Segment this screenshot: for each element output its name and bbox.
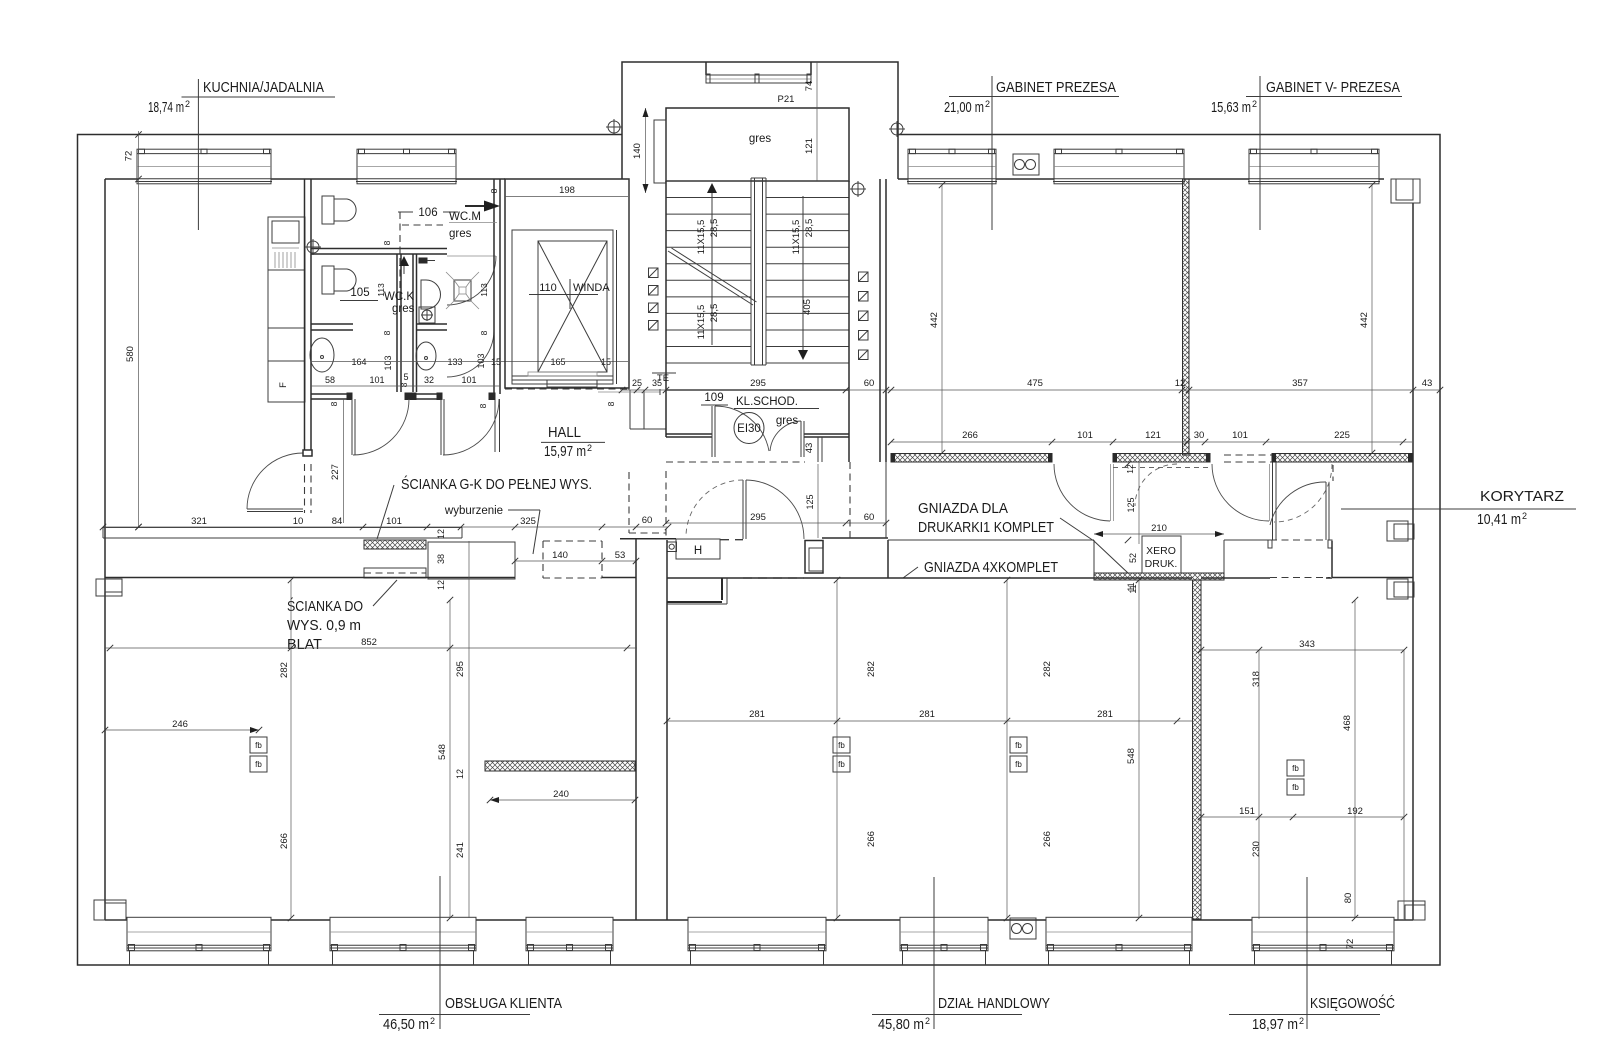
wc door1 arc <box>353 399 409 455</box>
svg-text:266: 266 <box>866 831 877 847</box>
right inner wall <box>1412 203 1414 920</box>
svg-text:140: 140 <box>552 550 568 561</box>
dim 240 <box>490 789 635 803</box>
EI30 door left leaf <box>711 406 713 457</box>
korytarz door leaf <box>1325 482 1327 540</box>
svg-text:106: 106 <box>418 207 437 219</box>
dim 852 <box>105 637 637 648</box>
svg-text:KL.SCHOD.: KL.SCHOD. <box>736 396 798 408</box>
svg-text:gres: gres <box>776 415 799 427</box>
stair right wall <box>848 181 850 462</box>
dim row y390 right <box>886 378 1440 390</box>
dashed opening korytarz top <box>1224 454 1272 456</box>
window W1 kuchnia <box>136 149 272 184</box>
wc m upper door leaf <box>447 255 496 257</box>
korytarz wall v <box>1331 541 1333 577</box>
dim 125 door <box>1126 462 1139 544</box>
svg-text:101: 101 <box>386 516 402 527</box>
svg-text:fb: fb <box>838 741 845 750</box>
korytarz door dashed arc <box>1274 464 1332 522</box>
xero niche walls <box>888 540 1268 578</box>
svg-text:282: 282 <box>1042 661 1053 677</box>
svg-text:343: 343 <box>1299 639 1315 650</box>
svg-text:295: 295 <box>750 378 766 389</box>
pilaster ksiegowosc br <box>1398 901 1425 920</box>
window B6 dzial handlowy <box>1046 917 1192 965</box>
svg-text:gres: gres <box>449 228 472 240</box>
svg-text:101: 101 <box>1077 430 1093 441</box>
window W2 kuchnia <box>356 149 457 184</box>
dim 548 a <box>437 600 450 918</box>
svg-text:15: 15 <box>491 357 501 367</box>
kitchen south wall <box>103 528 462 539</box>
xero box <box>1142 536 1181 573</box>
svg-text:gres: gres <box>749 133 772 145</box>
svg-text:2: 2 <box>587 443 592 453</box>
svg-text:15,63 m: 15,63 m <box>1211 99 1251 116</box>
dim 198 <box>505 185 628 197</box>
stair bottom wall <box>666 389 849 391</box>
svg-text:133: 133 <box>447 357 462 367</box>
hatched wall gabinet south A <box>891 454 1052 463</box>
svg-text:46,50 m: 46,50 m <box>383 1016 429 1033</box>
svg-text:11X15,5: 11X15,5 <box>696 305 707 340</box>
svg-text:227: 227 <box>330 464 341 480</box>
svg-text:60: 60 <box>864 378 875 389</box>
gabinet dim 442 b <box>1359 185 1372 453</box>
svg-text:103: 103 <box>476 353 486 368</box>
svg-text:281: 281 <box>749 709 765 720</box>
label EI30 <box>734 413 764 444</box>
svg-text:28,5: 28,5 <box>804 219 815 238</box>
small up arrow <box>399 256 409 274</box>
tower window <box>706 62 811 83</box>
svg-text:25: 25 <box>632 378 642 388</box>
svg-text:282: 282 <box>279 662 290 678</box>
ext line ksieg right <box>1403 650 1405 919</box>
svg-text:241: 241 <box>455 842 466 858</box>
stair down arrow <box>798 196 808 360</box>
svg-text:60: 60 <box>864 512 875 523</box>
corridor south wall left <box>105 577 515 579</box>
door handle symbol <box>419 258 427 263</box>
svg-text:225: 225 <box>1334 430 1350 441</box>
svg-text:12: 12 <box>455 769 465 779</box>
window B2 obsluga <box>330 917 476 965</box>
hall east dashed <box>665 471 667 538</box>
svg-text:28,5: 28,5 <box>709 219 720 238</box>
hatched wall gabinet south C <box>1272 454 1412 463</box>
marker cross stairs right <box>852 183 864 195</box>
corridor pier <box>805 541 823 574</box>
gabinet prezesa wall left <box>879 179 881 462</box>
scianka gk label <box>377 475 592 539</box>
stair break line <box>668 251 753 305</box>
svg-text:475: 475 <box>1027 378 1043 389</box>
hatched scianka blat <box>485 761 635 771</box>
svg-text:230: 230 <box>1251 841 1262 857</box>
svg-text:18,97 m: 18,97 m <box>1252 1016 1298 1033</box>
winda divider <box>569 279 571 309</box>
dimension ticks <box>100 131 1443 921</box>
svg-text:580: 580 <box>125 346 136 362</box>
dim 468 <box>1342 600 1355 918</box>
dim 343 <box>1201 639 1404 650</box>
H box small <box>667 542 677 552</box>
dim 74 <box>804 62 817 108</box>
stair landing box <box>666 108 849 181</box>
svg-text:P21: P21 <box>778 94 795 105</box>
label 106 <box>398 207 458 219</box>
dim row y442 <box>891 430 1412 442</box>
korytarz west wall <box>1272 462 1274 540</box>
winda underline <box>529 294 598 296</box>
svg-text:295: 295 <box>750 512 766 523</box>
svg-text:101: 101 <box>461 375 476 385</box>
svg-text:GABINET PREZESA: GABINET PREZESA <box>996 79 1116 96</box>
EI30 door right leaf <box>800 421 802 457</box>
pilaster obsluga tl <box>96 579 122 596</box>
svg-text:2: 2 <box>185 99 190 109</box>
window W5 gabinet v-prezesa <box>1248 149 1380 184</box>
dim row y390 stairs <box>622 378 886 390</box>
radiator symbol bottom <box>1010 918 1036 939</box>
svg-text:103: 103 <box>383 355 393 370</box>
label KL.SCHOD. <box>734 396 819 409</box>
dim 210 <box>1094 523 1224 537</box>
svg-text:GNIAZDA 4XKOMPLET: GNIAZDA 4XKOMPLET <box>924 559 1058 576</box>
dashed stairs south <box>666 461 805 463</box>
dashed corridor right <box>849 462 851 538</box>
dzial niche <box>667 578 727 604</box>
ext line ksieg <box>1258 650 1260 919</box>
fb box ksiegowosc <box>1287 760 1304 795</box>
pilaster obsluga bl <box>94 900 126 920</box>
wc wash basin left <box>310 338 334 372</box>
stair south wall <box>666 434 849 437</box>
svg-text:8: 8 <box>329 401 339 406</box>
svg-text:442: 442 <box>929 312 940 328</box>
radiator symbol top <box>1013 154 1039 175</box>
korytarz label <box>1341 488 1576 528</box>
svg-text:EI30: EI30 <box>737 423 761 435</box>
svg-text:32: 32 <box>424 375 434 385</box>
marker cross wc <box>419 307 435 323</box>
svg-text:WYS. 0,9 m: WYS. 0,9 m <box>287 617 361 634</box>
svg-text:58: 58 <box>325 375 335 385</box>
wc lav wall left <box>311 323 353 325</box>
shower <box>446 272 479 309</box>
kitchen fridge F <box>268 361 305 402</box>
wyburzenie label <box>444 505 540 554</box>
elevator X <box>538 241 607 372</box>
svg-text:wyburzenie: wyburzenie <box>444 505 503 517</box>
gabinet prezesa label <box>949 76 1119 230</box>
dim row y527 <box>103 515 668 527</box>
svg-text:8: 8 <box>479 330 489 335</box>
svg-text:442: 442 <box>1359 312 1370 328</box>
hatched scianka gk <box>364 540 426 549</box>
wc mid wall <box>311 249 447 255</box>
kitchen door arc <box>247 453 303 509</box>
svg-text:WC.K: WC.K <box>384 291 414 303</box>
svg-text:fb: fb <box>838 760 845 769</box>
ext line dzial a <box>836 580 838 918</box>
svg-text:321: 321 <box>191 516 207 527</box>
svg-text:38: 38 <box>436 554 446 564</box>
svg-text:198: 198 <box>559 185 575 196</box>
svg-text:281: 281 <box>919 709 935 720</box>
svg-text:405: 405 <box>802 299 813 315</box>
svg-text:5: 5 <box>403 372 408 382</box>
wc k right wall <box>397 254 401 392</box>
svg-text:125: 125 <box>805 494 815 509</box>
wc m upper door arc <box>447 256 496 305</box>
xero hatch <box>1094 573 1224 580</box>
svg-text:GABINET V- PREZESA: GABINET V- PREZESA <box>1266 79 1400 96</box>
radiator niche 2 <box>1387 579 1414 599</box>
dim 125 line hall <box>817 464 819 538</box>
svg-text:8: 8 <box>478 403 488 408</box>
elevator car <box>538 241 607 372</box>
korytarz dashed stub <box>1332 465 1334 481</box>
gabinet door1 dashed arc <box>1135 464 1177 506</box>
svg-text:DRUKARKI1 KOMPLET: DRUKARKI1 KOMPLET <box>918 519 1054 536</box>
wc east wall <box>494 179 500 452</box>
marker cross gabinet <box>891 123 903 135</box>
svg-text:852: 852 <box>361 637 377 648</box>
wc door2 leaf <box>440 399 442 455</box>
label WCM underline <box>449 222 497 224</box>
gniazda drukarki label <box>918 500 1128 573</box>
dzial leader <box>933 877 935 1029</box>
svg-text:28,5: 28,5 <box>709 304 720 323</box>
corridor wall dashed H <box>720 539 743 541</box>
kuchnia label underline <box>182 96 336 98</box>
svg-text:15: 15 <box>601 357 611 367</box>
svg-text:266: 266 <box>962 430 978 441</box>
dim 151/192 <box>1201 806 1404 817</box>
svg-text:gres: gres <box>392 303 415 315</box>
svg-text:240: 240 <box>553 789 569 800</box>
svg-text:11X15,5: 11X15,5 <box>696 220 707 255</box>
korytarz dashed bottom <box>1270 539 1330 541</box>
gabinet door2 arc <box>1212 464 1269 521</box>
svg-text:151: 151 <box>1239 806 1255 817</box>
svg-text:TE: TE <box>657 373 669 384</box>
svg-text:165: 165 <box>550 357 565 367</box>
top right pilaster <box>1391 179 1420 203</box>
hatched wall between gabinets <box>1183 179 1190 455</box>
stair treads <box>666 181 849 363</box>
hall label <box>541 424 605 460</box>
wall kitchen-wc <box>305 179 312 450</box>
hall double door arc dashed <box>686 480 743 537</box>
window W3 gabinet prezesa <box>907 149 997 184</box>
svg-text:11X15,5: 11X15,5 <box>791 220 802 255</box>
svg-text:XERO: XERO <box>1146 545 1176 557</box>
svg-text:468: 468 <box>1342 715 1353 731</box>
svg-text:8: 8 <box>382 240 392 245</box>
dim 548 b <box>1126 580 1139 918</box>
stair stringer <box>751 178 766 365</box>
dim 121 stairs <box>804 108 817 181</box>
kitchen counter sink unit <box>268 217 305 270</box>
hall double door arc solid <box>746 480 804 539</box>
svg-text:101: 101 <box>369 375 384 385</box>
dim 140 corridor <box>515 550 602 561</box>
kitchen door leaf <box>247 508 303 510</box>
fb box dzial a <box>833 737 850 772</box>
svg-text:548: 548 <box>1126 748 1137 764</box>
toilet WC.M <box>322 196 356 224</box>
svg-text:H: H <box>694 545 702 557</box>
svg-text:164: 164 <box>351 357 366 367</box>
corridor south wall right <box>822 537 888 539</box>
svg-text:fb: fb <box>1292 783 1299 792</box>
svg-text:fb: fb <box>255 741 262 750</box>
svg-text:295: 295 <box>455 661 466 677</box>
dim 246 <box>105 719 259 733</box>
svg-text:WC.M: WC.M <box>449 211 481 223</box>
stair up arrow <box>707 183 717 345</box>
svg-text:266: 266 <box>1042 831 1053 847</box>
gniazda 4x label <box>903 559 1058 578</box>
svg-text:548: 548 <box>437 744 448 760</box>
svg-text:325: 325 <box>520 516 536 527</box>
svg-text:140: 140 <box>632 143 643 159</box>
EI30 door arcs <box>715 406 769 451</box>
svg-text:246: 246 <box>172 719 188 730</box>
ksiegowosc leader <box>1306 877 1308 1029</box>
window B5 dzial handlowy <box>900 917 988 965</box>
wc m west wall <box>413 254 417 392</box>
wc wall cap <box>303 450 312 456</box>
svg-text:2: 2 <box>1299 1016 1304 1026</box>
svg-text:12: 12 <box>436 580 446 590</box>
svg-text:fb: fb <box>1015 760 1022 769</box>
svg-text:ŚCIANKA G-K DO PEŁNEJ WYS.: ŚCIANKA G-K DO PEŁNEJ WYS. <box>401 475 592 493</box>
svg-text:30: 30 <box>1194 430 1205 441</box>
wc door2 arc <box>443 399 499 455</box>
svg-text:281: 281 <box>1097 709 1113 720</box>
ext line obsluga <box>290 580 292 918</box>
elevator shaft wall right <box>616 230 618 384</box>
stair landing niche <box>654 120 666 183</box>
svg-text:121: 121 <box>804 138 815 154</box>
svg-text:DRUK.: DRUK. <box>1145 558 1178 570</box>
svg-text:60: 60 <box>642 515 653 526</box>
corridor strip dashed <box>628 472 630 533</box>
fb box dzial b <box>1010 737 1027 772</box>
svg-text:53: 53 <box>615 550 626 561</box>
window B7 ksiegowosc <box>1252 917 1394 965</box>
shaft corridor wall <box>628 179 630 390</box>
svg-text:15,97 m: 15,97 m <box>544 443 586 460</box>
inner top wall line <box>105 178 137 180</box>
TE label <box>652 373 676 384</box>
svg-text:KORYTARZ: KORYTARZ <box>1480 488 1564 505</box>
svg-text:282: 282 <box>866 661 877 677</box>
dim 227 <box>330 399 344 523</box>
scianka do wys label <box>287 580 397 653</box>
corridor strip box <box>630 390 666 429</box>
svg-text:11: 11 <box>1126 582 1136 591</box>
elevator door sill <box>512 372 613 387</box>
svg-text:210: 210 <box>1151 523 1167 534</box>
svg-text:DZIAŁ HANDLOWY: DZIAŁ HANDLOWY <box>938 995 1050 1012</box>
svg-text:105: 105 <box>350 287 369 299</box>
svg-text:fb: fb <box>1292 764 1299 773</box>
svg-text:12: 12 <box>436 529 446 539</box>
svg-text:F: F <box>278 382 289 388</box>
stair left wall <box>665 181 667 437</box>
svg-text:8: 8 <box>399 382 409 387</box>
dim 580 <box>125 131 139 527</box>
obsluga leader <box>439 876 441 1029</box>
wc south wall <box>311 393 495 400</box>
dzial label <box>872 995 1050 1033</box>
svg-text:101: 101 <box>1232 430 1248 441</box>
svg-text:121: 121 <box>1145 430 1161 441</box>
marker cross left wall <box>307 241 319 253</box>
kitchen counter box2 <box>268 328 305 361</box>
svg-text:8: 8 <box>382 330 392 335</box>
hatch squares left column <box>649 268 659 330</box>
divider wall obsluga dzial <box>636 538 667 920</box>
svg-text:10,41 m: 10,41 m <box>1477 511 1521 528</box>
svg-text:OBSŁUGA KLIENTA: OBSŁUGA KLIENTA <box>445 995 562 1012</box>
label 109 <box>701 392 728 405</box>
dashed box wcm <box>400 212 443 301</box>
svg-text:109: 109 <box>704 392 723 404</box>
dim row 362 <box>311 353 628 387</box>
dim row 386 <box>311 372 500 386</box>
gabinet v label <box>1246 76 1402 230</box>
svg-text:266: 266 <box>279 833 290 849</box>
scianka dashed box <box>364 568 426 578</box>
wc m sink <box>421 280 441 309</box>
hatched divider ksiegowosc <box>1193 580 1202 919</box>
elevator shaft inner <box>512 230 613 384</box>
svg-text:52: 52 <box>1128 553 1138 563</box>
svg-text:72: 72 <box>1345 939 1356 950</box>
gabinet door1 arc <box>1054 464 1110 521</box>
svg-text:72: 72 <box>124 151 135 162</box>
inner top wall line right <box>898 178 908 180</box>
hatch squares right column <box>859 272 869 360</box>
svg-text:2: 2 <box>430 1016 435 1026</box>
svg-text:113: 113 <box>376 283 386 297</box>
kuchnia leader <box>197 79 199 230</box>
building outer boundary <box>78 135 1441 966</box>
svg-text:84: 84 <box>332 516 343 527</box>
dzial top wall <box>667 577 1192 579</box>
svg-text:80: 80 <box>1343 893 1354 904</box>
korytarz wall stub <box>885 462 887 538</box>
dashed shaft bottom <box>505 388 628 390</box>
left inner wall <box>104 179 106 920</box>
bottom inner wall line <box>105 919 127 921</box>
ext line dzial b <box>1006 580 1008 918</box>
ext line obsluga2 <box>468 541 470 918</box>
svg-text:45,80 m: 45,80 m <box>878 1016 924 1033</box>
svg-text:8: 8 <box>489 188 499 193</box>
svg-text:2: 2 <box>985 99 990 109</box>
svg-text:110: 110 <box>539 282 557 294</box>
stair tower outline <box>622 62 898 179</box>
hall double door leaf <box>742 480 744 539</box>
